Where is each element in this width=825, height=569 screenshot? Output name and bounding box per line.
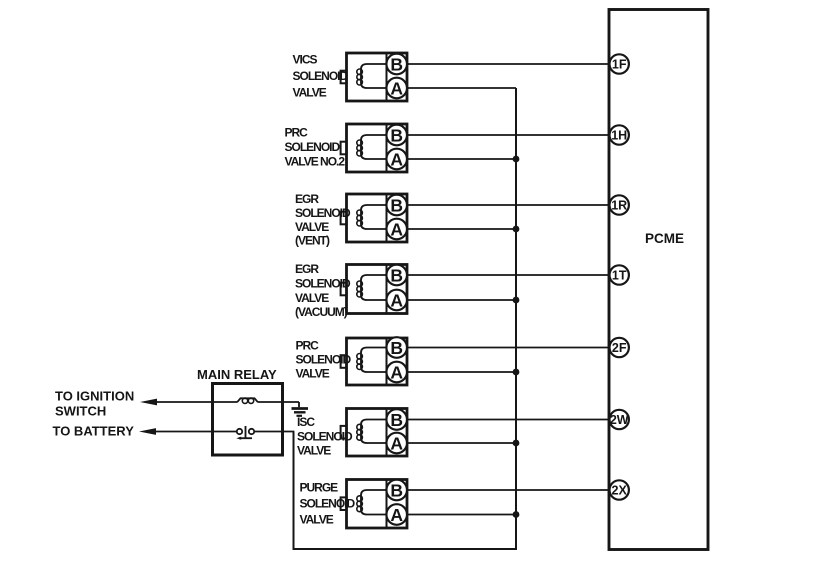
wire pin A EGR solenoid valve (vacuum) to bus <box>407 299 516 301</box>
svg-text:A: A <box>390 78 403 98</box>
label TO IGNITION SWITCH <box>55 389 134 419</box>
junction dot on bus at EGR solenoid valve (vacuum) A <box>513 297 520 304</box>
svg-text:1R: 1R <box>611 199 627 213</box>
PCME pin 2X <box>610 480 629 499</box>
ground symbol at relay coil <box>292 402 309 416</box>
wire pin A PURGE solenoid valve to bus <box>407 514 516 516</box>
pin A of EGR solenoid valve (vent) <box>386 219 407 240</box>
PCME pin 1F <box>610 54 629 73</box>
pin B of VICS solenoid valve <box>386 54 407 75</box>
svg-text:A: A <box>390 505 403 525</box>
solenoid valve body PRC solenoid valve <box>341 338 407 385</box>
solenoid valve body PURGE solenoid valve <box>341 480 407 529</box>
junction dot on bus at PRC solenoid valve No.2 A <box>513 156 520 163</box>
pin A of VICS solenoid valve <box>386 78 407 99</box>
solenoid valve body VICS solenoid valve <box>341 53 407 101</box>
PCME pin 2W <box>610 410 629 429</box>
svg-text:TO IGNITION: TO IGNITION <box>55 389 134 404</box>
wire pin A PRC solenoid valve No.2 to bus <box>407 158 516 160</box>
wire pin B EGR solenoid valve (vacuum) to PCME pin 1T <box>407 274 609 276</box>
relay switch contacts <box>214 426 294 440</box>
wire to battery with arrow <box>139 428 213 435</box>
wire pin A EGR solenoid valve (vent) to bus <box>407 228 516 230</box>
label VICS solenoid valve <box>293 53 349 100</box>
label TO BATTERY <box>53 424 135 439</box>
label MAIN RELAY <box>197 367 277 382</box>
wire pin B PRC solenoid valve to PCME pin 2F <box>407 347 609 349</box>
pin A of PRC solenoid valve No.2 <box>386 149 407 170</box>
PCME pin 1T <box>610 265 629 284</box>
solenoid valve body EGR solenoid valve (vent) <box>341 194 407 242</box>
svg-text:SWITCH: SWITCH <box>55 403 106 418</box>
svg-text:A: A <box>390 433 403 453</box>
pin A of PURGE solenoid valve <box>386 504 407 525</box>
wire supply bus: vertical drop, bottom run, left return up to relay <box>294 88 517 549</box>
svg-text:B: B <box>390 338 403 358</box>
pin B of PURGE solenoid valve <box>386 480 407 501</box>
wire pin A PRC solenoid valve to bus <box>407 371 516 373</box>
wire to ignition switch with arrow <box>140 399 213 406</box>
svg-text:1F: 1F <box>612 58 627 72</box>
svg-text:2W: 2W <box>610 413 629 427</box>
pin B of EGR solenoid valve (vent) <box>386 195 407 216</box>
svg-text:A: A <box>390 290 403 310</box>
svg-text:B: B <box>390 410 403 430</box>
pin A of EGR solenoid valve (vacuum) <box>386 290 407 311</box>
relay coil winding <box>214 398 299 403</box>
label EGR solenoid valve (vent) <box>295 192 351 247</box>
pin B of PRC solenoid valve No.2 <box>386 125 407 146</box>
junction dot on bus at PURGE solenoid valve A <box>513 511 520 518</box>
wire pin B EGR solenoid valve (vent) to PCME pin 1R <box>407 204 609 206</box>
svg-text:1H: 1H <box>611 129 627 143</box>
label PRC solenoid valve No.2 <box>285 126 346 169</box>
svg-text:2F: 2F <box>612 341 627 355</box>
solenoid valve body PRC solenoid valve No.2 <box>341 124 407 172</box>
label PCME <box>645 231 684 246</box>
junction dot on bus at PRC solenoid valve A <box>513 369 520 376</box>
pin A of ISC solenoid valve <box>386 433 407 454</box>
svg-text:B: B <box>390 480 403 500</box>
wire pin A VICS solenoid valve to bus (bus start) <box>407 87 516 89</box>
wire pin B PRC solenoid valve No.2 to PCME pin 1H <box>407 134 609 136</box>
solenoid valve body ISC solenoid valve <box>341 409 407 457</box>
wire pin A ISC solenoid valve to bus <box>407 442 516 444</box>
main relay box K1 <box>213 384 283 456</box>
label EGR solenoid valve (vacuum) <box>295 262 351 319</box>
PCME pin 1H <box>610 125 629 144</box>
svg-text:B: B <box>390 125 403 145</box>
svg-text:B: B <box>390 195 403 215</box>
svg-text:A: A <box>390 362 403 382</box>
svg-text:TO BATTERY: TO BATTERY <box>53 424 135 439</box>
wire pin B ISC solenoid valve to PCME pin 2W <box>407 419 609 421</box>
svg-text:1T: 1T <box>612 269 627 283</box>
svg-text:A: A <box>390 219 403 239</box>
pin A of PRC solenoid valve <box>386 362 407 383</box>
label PURGE solenoid valve <box>300 481 356 527</box>
solenoid valve body EGR solenoid valve (vacuum) <box>341 265 407 314</box>
svg-text:MAIN RELAY: MAIN RELAY <box>197 367 277 382</box>
svg-text:PCME: PCME <box>645 231 684 246</box>
pin B of EGR solenoid valve (vacuum) <box>386 265 407 286</box>
PCME pin 2F <box>610 338 629 357</box>
pin B of PRC solenoid valve <box>386 337 407 358</box>
svg-text:A: A <box>390 149 403 169</box>
label ISC solenoid valve <box>297 415 353 457</box>
svg-text:2X: 2X <box>612 484 628 498</box>
svg-text:B: B <box>390 54 403 74</box>
wire pin B PURGE solenoid valve to PCME pin 2X <box>407 489 609 491</box>
wire pin B VICS solenoid valve to PCME pin 1F <box>407 63 609 65</box>
svg-text:B: B <box>390 265 403 285</box>
junction dot on bus at EGR solenoid valve (vent) A <box>513 226 520 233</box>
PCME pin 1R <box>610 195 629 214</box>
junction dot on bus at ISC solenoid valve A <box>513 440 520 447</box>
pin B of ISC solenoid valve <box>386 409 407 430</box>
PCME module box U1 <box>609 10 708 550</box>
label PRC solenoid valve <box>296 339 352 381</box>
